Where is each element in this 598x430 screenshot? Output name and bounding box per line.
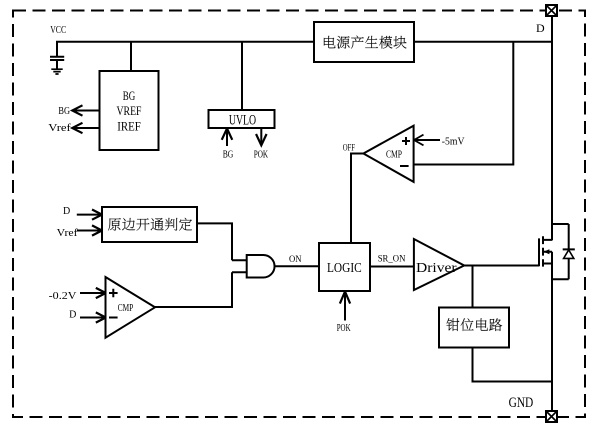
svg-text:UVLO: UVLO <box>229 113 256 129</box>
svg-text:GND: GND <box>509 395 534 411</box>
svg-text:OFF: OFF <box>343 143 355 153</box>
svg-text:-5mV: -5mV <box>442 137 465 148</box>
svg-text:-0.2V: -0.2V <box>49 291 78 302</box>
svg-text:Vref: Vref <box>48 123 71 134</box>
svg-text:Driver: Driver <box>416 261 457 276</box>
svg-text:D: D <box>69 309 76 320</box>
svg-text:POK: POK <box>254 150 269 161</box>
svg-text:LOGIC: LOGIC <box>327 261 362 276</box>
svg-text:VCC: VCC <box>50 24 66 36</box>
svg-text:D: D <box>63 206 70 217</box>
svg-text:SR_ON: SR_ON <box>378 254 406 264</box>
svg-text:CMP: CMP <box>118 303 134 314</box>
svg-text:BG: BG <box>58 106 70 117</box>
svg-text:ON: ON <box>289 254 302 264</box>
svg-text:Vref: Vref <box>57 228 79 239</box>
svg-text:VREF: VREF <box>117 103 142 118</box>
svg-text:D: D <box>536 21 545 35</box>
svg-text:IREF: IREF <box>117 119 141 134</box>
svg-text:CMP: CMP <box>386 149 402 160</box>
svg-text:BG: BG <box>123 88 136 103</box>
svg-text:POK: POK <box>337 323 351 334</box>
svg-text:BG: BG <box>223 150 234 161</box>
